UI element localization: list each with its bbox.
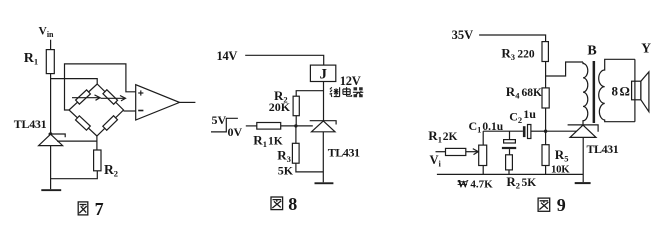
wire bridge right corner to op-amp - input <box>124 110 136 112</box>
bridge resistor bottom-right <box>103 116 118 130</box>
resistor R2 (fig9) <box>506 155 513 170</box>
svg-text:5K: 5K <box>278 164 294 178</box>
svg-text:R468K: R468K <box>506 84 542 101</box>
wire bridge bottom to R2 <box>96 136 98 150</box>
wire branch to bridge top <box>51 79 98 84</box>
transformer core <box>593 61 596 123</box>
svg-text:B: B <box>587 43 596 58</box>
wire R3 to R4 <box>545 62 547 88</box>
svg-text:R2: R2 <box>104 162 118 179</box>
capacitor C2 left plate <box>523 126 526 137</box>
resistor R1 (fig9) <box>446 148 466 155</box>
svg-text:TL431: TL431 <box>14 117 47 131</box>
ground (fig9) <box>575 182 591 184</box>
relay coil J box <box>310 65 335 81</box>
resistor R2 (fig7) <box>94 150 101 171</box>
svg-text:J: J <box>320 67 328 83</box>
svg-text:R3: R3 <box>277 148 291 165</box>
resistor R3 (fig9) <box>542 42 548 62</box>
wire R5 top <box>545 131 547 145</box>
svg-text:8Ω: 8Ω <box>612 84 630 99</box>
resistor R3 (fig8) <box>292 143 299 163</box>
wire TL431 ref to R2 top node <box>57 140 98 142</box>
transformer secondary winding <box>599 59 635 121</box>
svg-text:R5: R5 <box>555 147 569 164</box>
transformer primary winding <box>583 62 588 125</box>
svg-text:R1: R1 <box>24 51 38 67</box>
svg-text:0V: 0V <box>228 125 243 139</box>
svg-text:C10.1u: C10.1u <box>469 119 504 135</box>
wire pot top to rail <box>482 131 484 145</box>
wire R1 bottom to TL431 cathode <box>50 74 52 134</box>
svg-text:R11K: R11K <box>253 132 282 149</box>
node junction dot (fig8) <box>294 124 297 127</box>
svg-text:TL431: TL431 <box>587 142 619 156</box>
ground (fig8) <box>315 182 334 184</box>
wire bridge left corner to op-amp + input <box>65 64 136 110</box>
bottom rail wire <box>437 173 583 175</box>
potentiometer W body <box>479 145 487 165</box>
wire node to TL431 ref <box>546 130 577 132</box>
wire C1 top stub <box>509 131 511 139</box>
wire relay bottom to TL431 cathode <box>323 82 325 121</box>
node junction dot (fig9) <box>544 130 547 133</box>
wire R1 to TL431 ref <box>281 125 313 127</box>
capacitor C1 top plate <box>504 140 516 143</box>
label 继电器 <box>330 87 364 97</box>
input step waveform symbol <box>211 118 238 132</box>
svg-text:1u: 1u <box>523 107 536 121</box>
TL431 (fig8) cathode bar and ref hook <box>310 121 336 125</box>
wire R2 bottom <box>508 170 510 175</box>
label title fig7 glyph 图 <box>78 202 88 215</box>
strain arrow right <box>101 96 126 101</box>
svg-text:TL431: TL431 <box>328 145 360 159</box>
op-amp minus marker <box>138 110 143 112</box>
TL431 U2 (fig7) triangle <box>39 134 63 145</box>
speaker driver box <box>632 81 641 100</box>
resistor R4 (fig9) <box>542 88 549 108</box>
wire op-amp output <box>180 101 196 103</box>
speaker Y wire <box>634 59 636 121</box>
op-amp U1 <box>136 85 180 120</box>
wire R2 bottom to node <box>295 116 297 126</box>
wire Vi input <box>436 151 446 153</box>
resistor R5 (fig9) <box>542 145 549 166</box>
svg-text:35V: 35V <box>452 28 474 42</box>
capacitor C2 right plate <box>528 125 531 139</box>
resistor R1 (fig7) <box>46 50 54 74</box>
speaker horn <box>641 72 649 112</box>
wire node to R3 <box>295 126 297 143</box>
wire 14V rail to relay <box>245 55 324 65</box>
bridge resistor top-left <box>76 90 91 104</box>
svg-text:Vin: Vin <box>39 26 55 40</box>
ground (fig7) <box>41 189 61 191</box>
wire TL431 anode to ground <box>322 132 324 183</box>
wire C2 to node <box>531 130 546 132</box>
wire TL431 anode to ground (fig9) <box>582 137 584 182</box>
wire R1 to pot wiper arrow <box>466 149 479 155</box>
wire R5 bottom <box>545 166 547 175</box>
wire pot bottom <box>482 166 484 175</box>
TL431 (fig9) cathode bar and ref hook <box>568 125 599 132</box>
wire C1 to R2 <box>509 149 511 155</box>
node junction dot at TL431 cathode <box>49 132 52 135</box>
wire branch to transformer primary top <box>546 62 583 76</box>
svg-text:12V: 12V <box>340 74 361 88</box>
resistor R1 (fig8) <box>257 123 281 130</box>
wire input to R1 <box>246 125 257 127</box>
resistor R2 (fig8) <box>293 96 299 116</box>
wire TL431 anode down <box>50 146 52 190</box>
svg-text:8: 8 <box>288 194 297 214</box>
wire R3 bottom to ground line <box>296 163 323 172</box>
svg-text:20K: 20K <box>269 100 291 114</box>
TL431 (fig9) triangle <box>570 125 596 137</box>
svg-text:5V: 5V <box>212 113 227 127</box>
capacitor C1 bottom plate <box>502 147 516 149</box>
wire Vin to R1 <box>50 40 52 50</box>
bridge resistor top-right <box>103 90 118 104</box>
svg-text:R25K: R25K <box>506 174 536 191</box>
svg-text:14V: 14V <box>217 49 238 63</box>
svg-text:Vi: Vi <box>430 153 442 169</box>
TL431 (fig8) triangle <box>312 121 336 132</box>
svg-text:9: 9 <box>557 195 566 215</box>
wire R4 bottom to node <box>545 108 547 131</box>
label title fig9 glyph 图 <box>538 198 550 211</box>
svg-text:Y: Y <box>641 41 651 56</box>
bridge diamond wires <box>69 84 124 136</box>
wire top rail pot to C2 <box>483 130 523 132</box>
wire R2 bottom to anode line <box>51 171 98 179</box>
svg-text:R12K: R12K <box>428 128 457 145</box>
svg-text:7: 7 <box>95 199 104 219</box>
svg-text:C2: C2 <box>509 110 522 126</box>
label title fig8 glyph 图 <box>271 197 283 210</box>
wire R2 top hook <box>296 91 323 97</box>
TL431 U2 (fig7) cathode bar and ref hook <box>48 134 65 137</box>
strain arrow left <box>72 95 100 100</box>
bridge resistor bottom-left <box>76 116 91 130</box>
svg-text:R3220: R3220 <box>501 46 534 63</box>
wire 35V rail <box>479 35 545 42</box>
op-amp plus marker <box>138 90 143 95</box>
